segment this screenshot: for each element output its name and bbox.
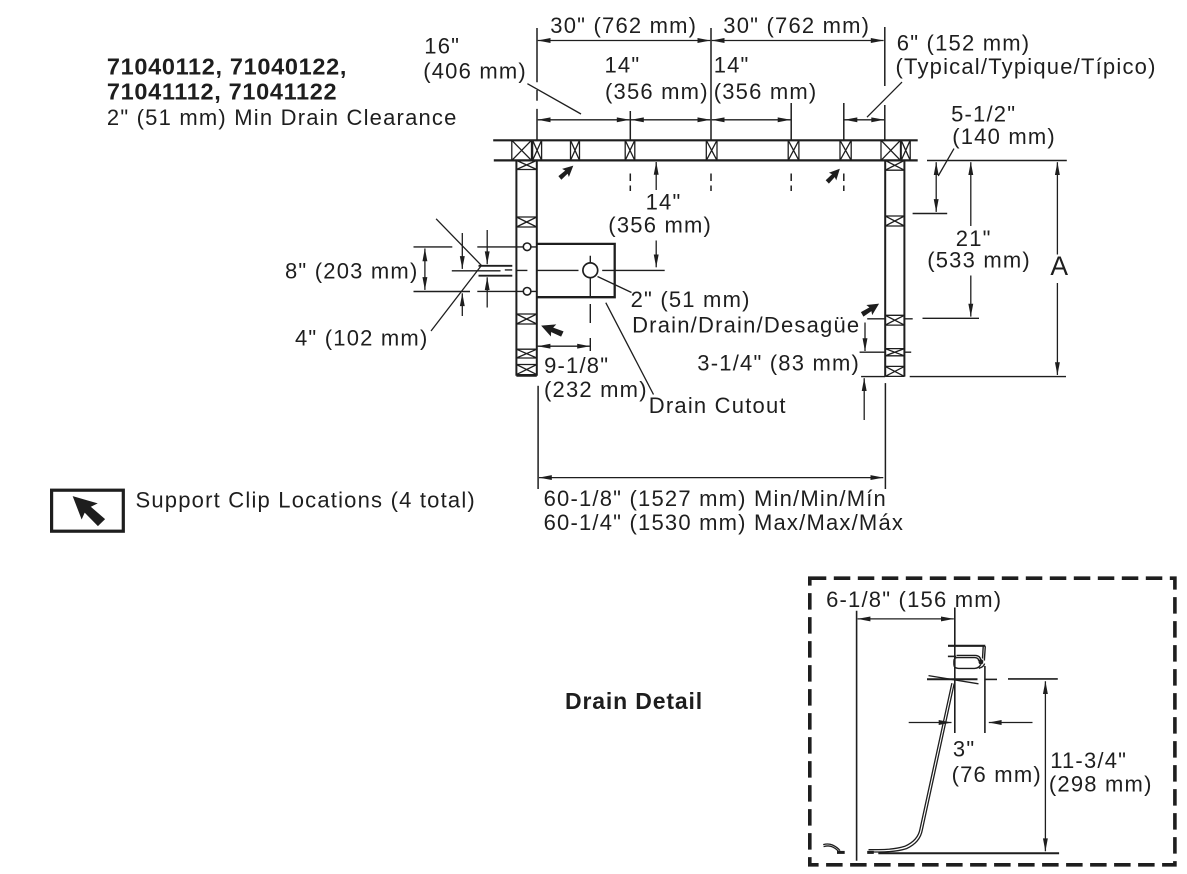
wire: right tick at tub bottom level <box>985 678 997 680</box>
node: left stud X blocking marks <box>516 160 536 374</box>
wire: 30in dimension extension line left <box>536 28 538 140</box>
wire: 16in dimension line <box>538 119 630 121</box>
wire: top plate upper line <box>493 139 918 141</box>
svg-text:A: A <box>1050 251 1068 281</box>
wire: 8in vertical dimension arrows <box>424 249 426 290</box>
svg-text:14": 14" <box>605 53 641 78</box>
wire: bottom dimension left extension line <box>537 386 539 489</box>
wire: 21in dimension arrows <box>970 162 972 226</box>
svg-text:60-1/8" (1527 mm) Min/Min/Mín: 60-1/8" (1527 mm) Min/Min/Mín <box>544 486 887 511</box>
wire: 30in dimension extension line middle <box>710 28 712 140</box>
svg-text:(356 mm): (356 mm) <box>608 213 712 238</box>
node: 3in (76 mm) label <box>952 737 1042 788</box>
wire: leader to pipe centerline from note <box>436 219 481 266</box>
svg-text:30" (762 mm): 30" (762 mm) <box>723 13 870 38</box>
wire: 3-1/4 dimension arrow upper <box>864 323 866 352</box>
node: top plate blocking X marks <box>512 140 910 160</box>
svg-text:71040112, 71040122,: 71040112, 71040122, <box>107 53 347 79</box>
wire: 4in dimension arrow upper <box>461 233 463 269</box>
svg-text:(Typical/Typique/Típico): (Typical/Typique/Típico) <box>896 54 1157 79</box>
node: support clip legend box <box>52 490 124 531</box>
wire: deck left tick in detail <box>948 655 956 657</box>
stud: right vertical stud <box>885 160 904 376</box>
svg-text:Support Clip Locations (4 tota: Support Clip Locations (4 total) <box>136 488 476 513</box>
svg-text:11-3/4": 11-3/4" <box>1050 748 1127 773</box>
wire: stud centerline dashes below top plate <box>630 174 844 192</box>
node: 14in (356 mm) middle label <box>608 189 712 237</box>
wire: 11-3/4 top reference line <box>1008 678 1058 680</box>
svg-text:2" (51 mm): 2" (51 mm) <box>631 287 751 312</box>
wire: right stud tick at clip row <box>867 318 913 320</box>
svg-text:3-1/4" (83 mm): 3-1/4" (83 mm) <box>697 351 860 376</box>
wire: drain right reference vertical in detail <box>984 666 986 733</box>
node: 14in (356 mm) top label 2 <box>714 53 818 104</box>
wire: 2in pipe dimension arrow lower <box>486 277 488 307</box>
wire: top reference line right side <box>927 160 1067 162</box>
svg-text:Drain Detail: Drain Detail <box>565 688 703 714</box>
node: support clip arrow top-left <box>557 163 576 181</box>
svg-text:6" (152 mm): 6" (152 mm) <box>897 30 1030 55</box>
svg-text:(76 mm): (76 mm) <box>952 762 1042 787</box>
node: tub bottom surface line in detail <box>927 678 978 680</box>
wire: pipe centerline with dashes <box>452 270 501 272</box>
wire: 3-1/4 dimension arrow lower <box>863 378 865 420</box>
wire: 9-1/8 dimension line <box>538 345 590 347</box>
svg-text:60-1/4" (1530 mm) Max/Max/Máx: 60-1/4" (1530 mm) Max/Max/Máx <box>544 510 904 535</box>
node: flange curl blob <box>979 659 984 664</box>
node: pipe clip circle upper on left stud <box>523 243 531 251</box>
wire: 6in dimension line <box>845 119 885 121</box>
node: 5-1/2 (140 mm) label <box>951 102 1056 149</box>
wire: leader from 6in label to dimension line <box>867 82 902 117</box>
wire: drain horizontal centerline <box>537 269 665 271</box>
svg-text:71041112, 71041122: 71041112, 71041122 <box>107 78 337 104</box>
node: detail bottom reference line <box>878 852 1059 854</box>
node: tub deck line in detail <box>948 645 985 647</box>
wire: 14in vertical dimension line middle <box>655 162 657 190</box>
wire: 30in dimension line 2 <box>712 40 884 42</box>
svg-text:Drain/Drain/Desagüe: Drain/Drain/Desagüe <box>632 313 860 338</box>
node: 60-1/8 60-1/4 labels <box>544 486 904 535</box>
node: support clip legend arrow <box>68 490 108 529</box>
node: pipe clip circle lower on left stud <box>523 288 531 296</box>
svg-text:2" (51 mm) Min Drain Clearance: 2" (51 mm) Min Drain Clearance <box>107 105 458 130</box>
svg-text:14": 14" <box>714 53 750 78</box>
wire: 8in dimension upper tick <box>414 246 453 248</box>
node: drain cutout rectangle <box>537 244 615 297</box>
wire: drain vertical centerline <box>589 256 591 351</box>
wire: A dimension arrow upper <box>1056 162 1058 254</box>
wire: 6-1/8 dimension line <box>858 618 954 620</box>
node: right stud X blocking marks <box>885 160 904 376</box>
node: support clip arrow top-right <box>824 166 842 185</box>
node: break mark curl bottom left of detail <box>823 844 840 851</box>
node: 14in (356 mm) top label 1 <box>605 53 709 104</box>
svg-text:Drain Cutout: Drain Cutout <box>649 393 787 418</box>
wire: 4in dimension arrow lower <box>461 293 463 316</box>
stud: left vertical stud <box>516 160 536 375</box>
svg-text:9-1/8": 9-1/8" <box>544 353 609 378</box>
svg-text:16": 16" <box>424 33 460 58</box>
node: 16in (406 mm) label <box>423 33 527 83</box>
node: support clip arrow on right stud <box>860 300 881 318</box>
wire: 30in dimension line 1 <box>538 40 711 42</box>
wire: leader from 5-1/2 label <box>938 149 954 176</box>
wire: 3in dimension arrow right <box>989 722 1033 724</box>
node: model numbers header <box>107 53 458 130</box>
wire: 16in right extension line (stud centerline) <box>629 111 631 140</box>
svg-text:30" (762 mm): 30" (762 mm) <box>550 13 697 38</box>
wire: right stud tick at 3-1/4 upper <box>860 351 912 353</box>
wire: 5-1/2 dimension arrows <box>935 162 937 212</box>
node: drain circle 2 inch <box>583 263 598 278</box>
wire: 6in left extension line <box>843 103 845 140</box>
svg-text:(140 mm): (140 mm) <box>952 124 1056 149</box>
wire: 5-1/2 dimension bottom tick <box>913 213 948 215</box>
node: 9-1/8 (232 mm) label <box>544 353 648 402</box>
svg-text:6-1/8" (156 mm): 6-1/8" (156 mm) <box>826 587 1002 612</box>
wire: leader from drain circle to 2in label <box>598 277 632 293</box>
wire: tub bottom slant line in detail <box>929 676 979 684</box>
svg-text:(298 mm): (298 mm) <box>1049 772 1153 797</box>
wire: 8in dimension lower tick <box>414 291 471 293</box>
wire: 11-3/4 dimension arrows <box>1044 681 1046 851</box>
wire: leader from drain cutout to label <box>606 303 654 395</box>
wire: bottom reference line right side <box>910 376 1066 378</box>
node: 6in (152 mm) Typical label <box>896 30 1157 79</box>
node: drain flange channel profile <box>954 646 985 668</box>
svg-text:3": 3" <box>953 737 975 762</box>
wire: drain centerline vertical in detail <box>954 608 956 734</box>
wire: leader from 16in label to dimension line <box>527 84 581 114</box>
pipe: drain supply stub lower line <box>479 275 513 277</box>
svg-text:(533 mm): (533 mm) <box>927 248 1031 273</box>
node: support clip arrow on left stud <box>540 321 564 339</box>
svg-text:8" (203 mm): 8" (203 mm) <box>285 259 418 284</box>
wire: A dimension arrow lower <box>1056 283 1058 375</box>
wire: 2in pipe dimension arrow upper <box>486 230 488 264</box>
wire: 30in dimension extension line right <box>884 27 886 140</box>
wire: leader from 4in label <box>431 266 481 331</box>
wire: 3in dimension arrow left <box>909 722 952 724</box>
node: 2in (51 mm) drain label <box>631 287 861 338</box>
node: drain detail dashed border box <box>810 578 1175 865</box>
wire: right stud bottom left tick <box>861 376 885 378</box>
svg-text:4" (102 mm): 4" (102 mm) <box>295 326 428 351</box>
wire: 14in dimension line 1 <box>631 119 710 121</box>
svg-text:(232 mm): (232 mm) <box>544 377 648 402</box>
svg-text:(356 mm): (356 mm) <box>714 79 818 104</box>
wire: bottom dimension right extension line <box>884 383 886 489</box>
node: 21in (533 mm) label <box>927 226 1031 273</box>
wire: horizontal line through upper clip circle <box>477 246 537 248</box>
node: 11-3/4 (298 mm) label <box>1049 748 1153 797</box>
wire: 60-1/8 dimension line <box>539 477 883 479</box>
svg-text:(356 mm): (356 mm) <box>605 79 709 104</box>
svg-text:(406 mm): (406 mm) <box>423 59 527 84</box>
wire: detail left vertical reference line <box>856 611 858 861</box>
wire: 14in dimension line 2 <box>712 119 791 121</box>
wire: horizontal line through lower clip circle <box>477 290 537 292</box>
wire: 14in#2 right extension line <box>790 103 792 140</box>
svg-text:5-1/2": 5-1/2" <box>951 102 1016 127</box>
wire: 21in dimension bottom tick <box>923 317 980 319</box>
wire: top plate lower line <box>494 159 918 161</box>
svg-text:14": 14" <box>646 189 682 214</box>
pipe: drain supply stub upper line <box>479 265 513 267</box>
node: tub apron profile double line <box>869 684 955 853</box>
